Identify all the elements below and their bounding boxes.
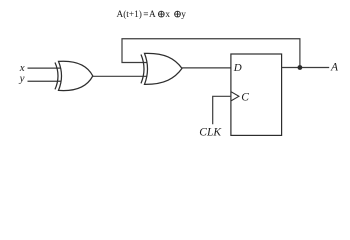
xor gate G2	[141, 53, 182, 84]
wire G1 output to G2 input	[93, 75, 147, 77]
wire feedback loop	[122, 39, 300, 68]
svg-text:y: y	[181, 10, 186, 20]
xor gate G1	[55, 61, 93, 90]
xor symbol 2	[175, 11, 181, 17]
xor symbol 1	[158, 11, 164, 17]
wire x input	[28, 67, 62, 69]
wire y input	[28, 80, 62, 82]
wire Q output to A	[282, 67, 330, 69]
svg-text:CLK: CLK	[199, 127, 222, 139]
junction node	[298, 65, 303, 70]
svg-text:D: D	[233, 62, 242, 74]
flip-flop U1 box	[231, 54, 282, 135]
svg-text:=: =	[143, 10, 148, 20]
equation label A(t+1) = A xor x xor y	[117, 9, 187, 20]
svg-text:A(t+1): A(t+1)	[117, 9, 142, 20]
wire G2 output to D input	[182, 67, 232, 69]
svg-text:A: A	[330, 62, 339, 74]
svg-text:A: A	[149, 10, 156, 20]
svg-text:C: C	[241, 91, 249, 103]
svg-text:x: x	[165, 10, 170, 20]
wire CLK	[213, 96, 231, 124]
clock edge triangle	[231, 92, 239, 101]
svg-text:y: y	[19, 72, 25, 84]
